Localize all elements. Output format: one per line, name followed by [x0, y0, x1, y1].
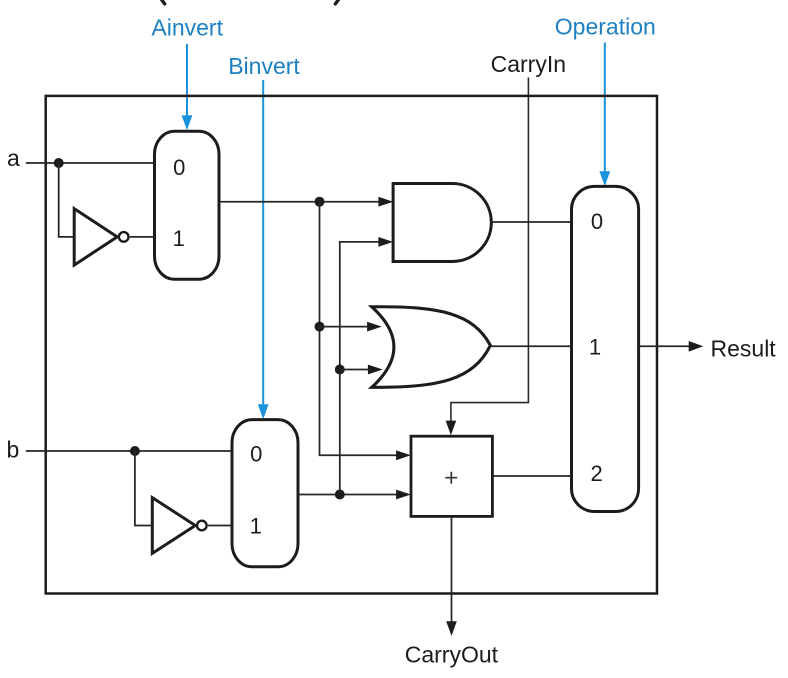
svg-text:0: 0: [173, 155, 185, 180]
AND gate: [393, 184, 491, 262]
wire b-signal up to AND input 2: [340, 242, 385, 495]
wire mux B output to adder: [298, 494, 403, 496]
svg-text:Result: Result: [711, 335, 777, 361]
Operation arrow: [599, 43, 610, 187]
node OR input 2 junction: [335, 365, 345, 375]
arrowhead Result: [689, 341, 704, 352]
svg-text:2: 2: [590, 461, 602, 486]
OR gate: [372, 307, 491, 388]
wire a-signal down to adder: [320, 202, 404, 456]
svg-text:b: b: [7, 437, 20, 463]
arrowhead into AND input 2: [378, 237, 393, 247]
cropped glyph: right parenthesis tip: [335, 0, 339, 4]
wire adder output to result mux: [492, 475, 571, 477]
svg-text:1: 1: [250, 514, 262, 539]
inverter (a) bubble: [119, 232, 129, 242]
cropped glyph: left parenthesis tip: [160, 0, 164, 4]
wire b input: [26, 450, 232, 452]
svg-text:CarryIn: CarryIn: [491, 51, 566, 77]
node OR input 1 junction: [315, 322, 325, 332]
svg-text:Binvert: Binvert: [228, 53, 300, 79]
inverter (b) bubble: [197, 521, 207, 531]
svg-text:0: 0: [250, 441, 262, 466]
svg-text:0: 0: [591, 209, 603, 234]
wire CarryOut: [451, 516, 453, 622]
arrowhead into OR input 2: [368, 365, 383, 375]
svg-text:a: a: [7, 145, 20, 171]
mux Operation (3:1 result mux): [572, 186, 639, 511]
svg-text:1: 1: [589, 334, 601, 359]
arrowhead into adder input 1: [396, 450, 411, 460]
wire to OR input 2: [340, 369, 375, 371]
wire Result output: [639, 345, 691, 347]
inverter (a) triangle: [74, 209, 117, 266]
outer ALU box: [46, 96, 657, 594]
node a-signal junction: [315, 197, 325, 207]
wire a to inverter: [59, 163, 74, 237]
wire inverter a to mux: [130, 236, 155, 238]
Binvert arrow: [258, 80, 269, 419]
svg-text:1: 1: [173, 226, 185, 251]
wire to OR input 1: [320, 326, 375, 328]
wire a input: [26, 162, 155, 164]
adder box: [411, 436, 492, 516]
arrowhead into AND input 1: [378, 197, 393, 207]
arrowhead CarryIn into adder: [446, 421, 457, 436]
wire OR output to result mux: [491, 345, 571, 347]
wire inverter b to mux: [208, 525, 232, 527]
svg-text:Operation: Operation: [555, 14, 656, 40]
arrowhead CarryOut: [446, 621, 457, 636]
wire b to inverter: [135, 451, 152, 526]
mux Ainvert (2:1): [155, 131, 220, 279]
node a junction: [54, 158, 64, 168]
node b junction: [130, 446, 140, 456]
wire CarryIn vertical + into adder: [451, 78, 529, 423]
wire mux A output to AND gate: [219, 201, 385, 203]
arrowhead into OR input 1: [367, 322, 382, 332]
adder plus sign: [445, 472, 457, 484]
node b-signal junction: [335, 490, 345, 500]
Ainvert arrow: [182, 44, 193, 130]
arrowhead into adder input 2: [396, 490, 411, 500]
wire AND output to result mux: [492, 221, 572, 223]
mux Binvert (2:1): [232, 420, 298, 567]
svg-text:CarryOut: CarryOut: [405, 641, 499, 667]
svg-text:Ainvert: Ainvert: [151, 15, 223, 41]
inverter (b) triangle: [152, 498, 195, 554]
